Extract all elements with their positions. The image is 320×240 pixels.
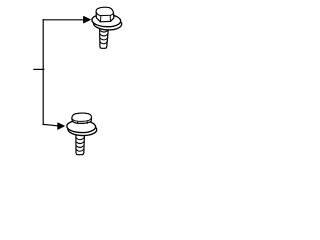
bolt B2 flange: [67, 120, 96, 133]
wire vertical bracket: [42, 20, 44, 125]
bolt B1 flange underside: [93, 17, 122, 31]
bolt B1 shank: [100, 27, 109, 49]
wire bottom horizontal: [43, 124, 58, 126]
bolt B1 hex head: [96, 7, 114, 22]
bolt B2 (bottom): [67, 113, 97, 155]
bolt B2 flange underside: [68, 123, 97, 136]
bolt B1 flange: [92, 14, 121, 28]
wire top horizontal: [43, 19, 84, 21]
arrow to bolt B2: [58, 123, 65, 130]
arrow to bolt B1: [84, 16, 91, 23]
bolt B1 hex corner lines: [99, 16, 102, 22]
bolt B2 hex corner lines: [77, 121, 79, 123]
wire middle tick: [34, 68, 44, 70]
bolt B2 hex top face: [72, 113, 92, 121]
bolt B1 threads: [100, 30, 108, 32]
bolt B1 (top): [92, 7, 122, 48]
bolt B2 hex head: [72, 113, 92, 123]
bolt B1 hex top face: [96, 7, 113, 15]
bolt B2 shank: [76, 133, 85, 155]
bolt B2 threads: [76, 138, 84, 140]
